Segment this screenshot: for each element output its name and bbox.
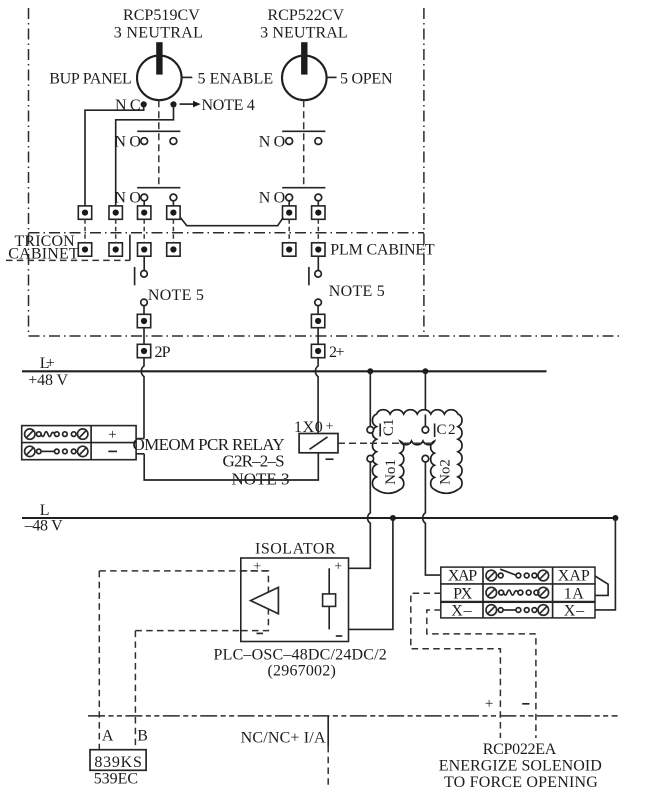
contact C2 upper circle bbox=[422, 427, 429, 434]
bus L+ +48V bbox=[22, 370, 547, 372]
NOTE5 left upper contact circle bbox=[141, 271, 148, 278]
fuse row3 link and circles bbox=[498, 608, 503, 613]
fuse row2 screw terminal right bbox=[538, 587, 549, 598]
isolator right - label bbox=[336, 635, 343, 637]
wire 2+ down to coil 1X0, hop over L+ bus bbox=[315, 358, 318, 434]
wire K1 minus loop to coil 1X0 minus bbox=[144, 453, 318, 480]
terminal T5 bbox=[283, 206, 296, 219]
terminal T13 bbox=[137, 314, 150, 327]
NOTE5 right wire to terminal bbox=[317, 306, 319, 315]
dashed control line PX to solenoid + bbox=[411, 593, 501, 738]
svg-text:–48 V: –48 V bbox=[24, 517, 63, 534]
fuse row3 screw terminal left bbox=[486, 605, 497, 616]
fuse terminal table: row XAP box bbox=[441, 567, 595, 584]
S2 body circle bbox=[282, 56, 327, 101]
wire NC right to terminal col2 bbox=[116, 104, 174, 205]
box 839KS bbox=[90, 750, 146, 771]
wire T14 to 2+ bbox=[317, 328, 319, 345]
svg-text:839KS: 839KS bbox=[94, 754, 141, 771]
label - solenoid bbox=[522, 703, 529, 705]
S1 NO row1 bar bbox=[137, 130, 180, 132]
coil slash bbox=[310, 437, 328, 449]
svg-text:NOTE 5: NOTE 5 bbox=[329, 283, 385, 300]
svg-text:NOTE 3: NOTE 3 bbox=[232, 469, 290, 488]
terminal 2+ bbox=[311, 344, 324, 357]
isolator internal dashed input path bbox=[241, 571, 269, 631]
contact C1 upper circle bbox=[367, 427, 374, 434]
S1 knob bar bbox=[156, 42, 162, 74]
S1 mechanical linkage dashed bbox=[158, 100, 160, 187]
wire L+ down to C2 upper contact bbox=[424, 371, 426, 426]
svg-text:(2967002): (2967002) bbox=[268, 663, 336, 680]
K1 row2 small circles and link bbox=[37, 449, 42, 454]
S1 body circle bbox=[137, 56, 182, 101]
NC contact dot left bbox=[141, 101, 147, 107]
contact C1 lower circle bbox=[367, 455, 374, 462]
svg-text:PLC–OSC–48DC/24DC/2: PLC–OSC–48DC/24DC/2 bbox=[214, 647, 387, 664]
isolator left - label bbox=[257, 632, 264, 634]
terminal T12 bbox=[312, 243, 325, 256]
K1 row1 small circles and wiggle bbox=[37, 432, 42, 437]
fuse row2 screw terminal left bbox=[486, 587, 497, 598]
wire NC/NC+ stub dashed bbox=[327, 746, 329, 786]
dashed links between terminal rows bbox=[84, 219, 86, 243]
svg-text:PLM CABINET: PLM CABINET bbox=[330, 242, 435, 259]
cloud annotation around relay contacts bbox=[372, 410, 462, 494]
svg-text:B: B bbox=[137, 728, 148, 745]
terminal T4 bbox=[167, 206, 180, 219]
terminal 2P bbox=[137, 344, 150, 357]
svg-text:+: + bbox=[108, 427, 116, 443]
S2 NO row1 contact circles bbox=[286, 138, 293, 145]
NOTE5 right upper contact circle bbox=[315, 271, 322, 278]
svg-text:L: L bbox=[40, 502, 50, 519]
dashed control line X- to solenoid - bbox=[427, 610, 536, 738]
wire C2 lower contact down to fuse XAP, hop over L bus bbox=[423, 462, 441, 575]
svg-text:5 OPEN: 5 OPEN bbox=[340, 71, 393, 88]
svg-text:RCP022EA: RCP022EA bbox=[483, 741, 557, 758]
K1 minus label bbox=[108, 450, 117, 452]
NOTE5 right lower contact circle bbox=[315, 299, 322, 306]
svg-text:539EC: 539EC bbox=[94, 770, 138, 787]
wire L+ down to C1 upper contact bbox=[369, 371, 371, 426]
svg-text:C2: C2 bbox=[437, 422, 456, 438]
TRICON cabinet left border (dash-dot) bbox=[28, 8, 30, 336]
TRICON terminal enclosure right edge bbox=[129, 235, 131, 261]
svg-text:+: + bbox=[485, 696, 493, 712]
junction node on L+ for contact C2 bbox=[422, 368, 428, 374]
dashed line B horizontal bbox=[135, 630, 240, 632]
NOTE5 left wire to terminal bbox=[143, 306, 145, 315]
NOTE5 left lower contact circle bbox=[141, 299, 148, 306]
K1 row1 screw terminal right bbox=[78, 429, 88, 439]
S2 mechanical linkage dashed bbox=[303, 100, 305, 187]
S1 NO row2 contact circles bbox=[141, 194, 148, 201]
svg-text:3 NEUTRAL: 3 NEUTRAL bbox=[260, 25, 348, 42]
isolator output element square bbox=[323, 594, 336, 607]
cabinet bottom boundary dash-dot at y=336 bbox=[29, 335, 620, 337]
svg-text:2P: 2P bbox=[155, 344, 171, 361]
relay K1 OMEOM terminal block outer box bbox=[22, 426, 136, 460]
isolator internal output line bbox=[328, 568, 330, 629]
NOTE5 disconnect right: wire from T12 bbox=[317, 256, 319, 270]
svg-text:BUP PANEL: BUP PANEL bbox=[49, 71, 132, 88]
S2 stub to 5 OPEN bbox=[327, 76, 337, 78]
isolator amplifier triangle bbox=[251, 587, 279, 614]
bottom phantom boundary line bbox=[88, 715, 618, 717]
junction node on L+ for contact C1 bbox=[367, 368, 373, 374]
arrow to NOTE 4 bbox=[180, 103, 194, 105]
fuse row1 screw terminal left bbox=[486, 570, 497, 581]
K1 block row divider bbox=[22, 442, 136, 444]
svg-text:C1: C1 bbox=[381, 419, 397, 437]
dashed line A vertical bbox=[98, 571, 100, 750]
svg-text:5 ENABLE: 5 ENABLE bbox=[198, 71, 274, 88]
PLM cabinet right border (dash-dot) bbox=[423, 8, 425, 336]
S1 NO row1 contact circles bbox=[141, 138, 148, 145]
wire NC left to terminal col1 bbox=[85, 104, 144, 205]
contact C2 lower circle bbox=[422, 455, 429, 462]
NOTE5 disconnect left: wire from T9 bbox=[143, 256, 145, 270]
S2 NO row2 contact circles bbox=[286, 194, 293, 201]
svg-text:NC/NC+ I/A: NC/NC+ I/A bbox=[241, 730, 326, 747]
relay coil 1X0 box bbox=[299, 434, 338, 453]
svg-text:+: + bbox=[253, 559, 261, 574]
svg-text:3 NEUTRAL: 3 NEUTRAL bbox=[114, 25, 203, 42]
coil minus label bbox=[326, 458, 334, 460]
terminal T6 bbox=[312, 206, 325, 219]
terminal block row1 T1 bbox=[78, 206, 91, 219]
NC contact dot right bbox=[170, 101, 176, 107]
dashed line A horizontal bbox=[99, 570, 268, 572]
wire C1 lower contact down to isolator +, hop over L bus bbox=[329, 462, 370, 568]
svg-text:+: + bbox=[326, 420, 334, 435]
dashed coil linkage redrawn over cloud bbox=[370, 442, 434, 444]
cross-cabinet wire from T4 to T5 bbox=[180, 217, 283, 225]
K1 - stub wire bbox=[136, 453, 144, 455]
S2 NO row1 bar bbox=[282, 130, 325, 132]
terminal T14 bbox=[311, 314, 324, 327]
K1 row1 screw terminal left bbox=[25, 429, 35, 439]
svg-text:1 A: 1 A bbox=[564, 585, 584, 602]
fuse row1 screw terminal right bbox=[538, 570, 549, 581]
K1 row2 screw terminal left bbox=[25, 446, 35, 456]
svg-text:A: A bbox=[102, 728, 114, 745]
svg-text:TO FORCE OPENING: TO FORCE OPENING bbox=[444, 774, 598, 791]
terminal T8 bbox=[109, 243, 122, 256]
fuse row2 wiggle and circles bbox=[499, 590, 504, 595]
terminal T2 bbox=[109, 206, 122, 219]
wire L bus down to isolator minus bbox=[329, 518, 393, 629]
K1 + stub wire bbox=[136, 438, 144, 440]
svg-text:2+: 2+ bbox=[329, 344, 345, 361]
svg-text:XAP: XAP bbox=[558, 567, 590, 584]
NOTE5 left blade bar bbox=[134, 267, 136, 285]
svg-text:RCP522CV: RCP522CV bbox=[268, 7, 345, 24]
contact C2 fixed bar bbox=[434, 424, 436, 438]
row PX box bbox=[441, 584, 595, 602]
svg-text:X–: X– bbox=[451, 603, 472, 620]
S2 knob bar bbox=[301, 42, 307, 74]
TRICON terminal enclosure dashed bottom bbox=[6, 259, 130, 261]
row X- box bbox=[441, 602, 595, 618]
S1 NO2 contacts drop wires bbox=[143, 201, 145, 207]
svg-text:X–: X– bbox=[564, 603, 585, 620]
cabinet top boundary dash-dot at y=233 bbox=[29, 232, 424, 234]
terminal T10 bbox=[167, 243, 180, 256]
fuse row3 screw terminal right bbox=[538, 605, 549, 616]
K1 row2 screw terminal right bbox=[78, 446, 88, 456]
svg-text:No2: No2 bbox=[437, 459, 453, 485]
wire 2P down to relay, hop over L+ bus bbox=[141, 358, 144, 439]
svg-text:+48 V: +48 V bbox=[28, 372, 68, 389]
terminal T3 bbox=[138, 206, 151, 219]
svg-text:No1: No1 bbox=[383, 459, 399, 485]
S2 NO row2 bar bbox=[282, 187, 325, 189]
contact C1 fixed bar bbox=[379, 424, 381, 437]
svg-text:ISOLATOR: ISOLATOR bbox=[255, 540, 336, 557]
wire T13 to 2P bbox=[143, 328, 145, 345]
svg-text:ENERGIZE SOLENOID: ENERGIZE SOLENOID bbox=[439, 757, 602, 774]
K1 block column divider bbox=[90, 426, 92, 460]
svg-text:+: + bbox=[334, 559, 342, 574]
svg-text:NOTE 5: NOTE 5 bbox=[148, 287, 204, 304]
S2 NO2 contacts drop wires bbox=[288, 201, 290, 207]
S1 stub to 5 ENABLE bbox=[182, 76, 193, 78]
NOTE5 right blade bar bbox=[308, 267, 310, 285]
bracket wire XAP to 1A bbox=[595, 576, 608, 595]
terminal T11 bbox=[283, 243, 296, 256]
bus L -48V bbox=[22, 517, 615, 519]
S1 NO row2 bar bbox=[137, 187, 180, 189]
dashed line B vertical bbox=[134, 631, 136, 750]
dashed linkage coil to contacts bbox=[338, 442, 434, 444]
junction node L bus corner bbox=[612, 515, 618, 521]
svg-text:RCP519CV: RCP519CV bbox=[123, 7, 200, 24]
svg-text:NOTE 4: NOTE 4 bbox=[202, 97, 255, 114]
svg-text:PX: PX bbox=[453, 585, 473, 602]
svg-text:XAP: XAP bbox=[448, 567, 477, 584]
junction node L bus to isolator minus bbox=[390, 515, 396, 521]
table column dividers bbox=[483, 567, 553, 618]
svg-text:G2R–2–S: G2R–2–S bbox=[223, 452, 285, 471]
wire L bus corner down to X- row bbox=[595, 518, 615, 610]
terminal row2 T7 bbox=[78, 243, 91, 256]
isolator U1 box bbox=[241, 558, 349, 642]
wire NC/NC+ stub solid bbox=[327, 716, 329, 746]
svg-text:L+: L+ bbox=[40, 355, 55, 372]
fuse row1 contact blade and circles bbox=[498, 573, 503, 578]
terminal T9 bbox=[138, 243, 151, 256]
contact C2 wire through cloud bbox=[424, 415, 426, 427]
